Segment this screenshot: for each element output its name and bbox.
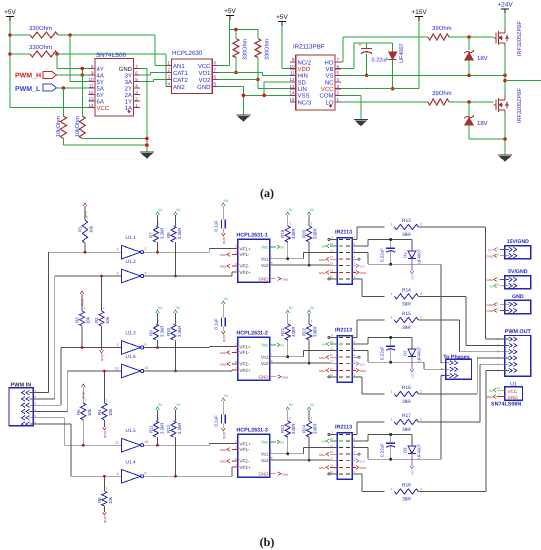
node +5V1/R330-1	[8, 33, 12, 37]
svg-text:VSS: VSS	[298, 93, 310, 100]
svg-text:5V: 5V	[281, 344, 285, 348]
resistor R10 3.3kR	[171, 324, 176, 340]
svg-text:2: 2	[145, 247, 147, 251]
svg-text:D2: D2	[403, 350, 408, 356]
resistor R2 10k	[99, 311, 104, 326]
resistor R6 10k pulldown	[103, 476, 105, 491]
svg-text:10kOhm: 10kOhm	[56, 116, 62, 137]
svg-text:HCPL2630: HCPL2630	[172, 50, 203, 57]
pin 3 PWM OUT	[509, 350, 513, 354]
node R9 junction	[156, 346, 159, 349]
flag GND COM	[352, 466, 356, 468]
node VS/phase	[503, 74, 507, 78]
flag 5V Vcc	[277, 343, 280, 347]
pin 6 PWM OUT	[509, 368, 513, 372]
svg-text:1: 1	[158, 417, 160, 421]
flag GND SD	[330, 356, 337, 358]
node gnd net 2	[145, 143, 149, 147]
svg-text:14: 14	[289, 91, 295, 96]
flag 15V diode	[410, 271, 414, 274]
flag GND VSS	[330, 369, 337, 371]
resistor R24 330R	[307, 421, 312, 437]
flag 5V Vcc	[277, 440, 280, 444]
pin 6 3Y	[134, 74, 140, 76]
pin 6 VO2	[212, 79, 218, 81]
resistor 39Ohm (high gate)	[428, 34, 449, 40]
svg-text:39R: 39R	[402, 427, 411, 433]
wire VSS to gnd net	[243, 94, 289, 96]
svg-text:U1.3: U1.3	[126, 331, 136, 337]
wire HO to R15	[352, 337, 357, 339]
node R10 junction	[174, 370, 177, 373]
svg-text:GND: GND	[487, 278, 495, 282]
svg-text:(b): (b)	[260, 535, 275, 549]
node R8 junction	[174, 275, 177, 278]
svg-text:GND: GND	[220, 265, 228, 269]
flag 5V R9	[156, 310, 160, 313]
pin 2 PWM OUT	[509, 343, 513, 347]
wire Vo2 to LIN	[276, 264, 330, 266]
node VO1/R330-3	[234, 71, 238, 75]
svg-text:15V: 15V	[488, 248, 493, 252]
svg-text:5V: 5V	[489, 389, 493, 393]
resistor R14 39R	[394, 294, 418, 299]
svg-text:9: 9	[117, 472, 119, 476]
svg-text:Vcc: Vcc	[261, 245, 269, 250]
svg-text:2: 2	[420, 223, 422, 227]
svg-text:VF2-: VF2-	[239, 362, 249, 367]
svg-text:3.3kR: 3.3kR	[160, 228, 165, 239]
flag GND COM	[352, 271, 356, 273]
pin 6 PWM IN	[26, 422, 30, 426]
wire R14 to bus	[419, 295, 467, 297]
flag 5V R22	[307, 310, 311, 313]
ground G2	[236, 114, 250, 116]
wire PWM IN pin 6 to inverter	[37, 423, 71, 425]
svg-text:LIN: LIN	[298, 86, 307, 93]
flag 15V VCC	[352, 363, 356, 365]
svg-text:1: 1	[289, 222, 291, 226]
svg-text:2: 2	[420, 292, 422, 296]
pin 4 2Y	[134, 87, 140, 89]
pin 15 NC/3	[290, 101, 296, 103]
svg-text:NC: NC	[325, 79, 334, 86]
svg-text:1: 1	[106, 487, 108, 491]
node R6/U1.4 input	[103, 475, 106, 478]
svg-text:Vo1: Vo1	[261, 452, 269, 457]
pin 4 AN2	[166, 86, 172, 88]
resistor 330Ohm (VO2 pull-up)	[257, 30, 259, 39]
flag GND 15V/GND	[494, 254, 497, 258]
svg-text:GND: GND	[487, 303, 495, 307]
svg-text:R10: R10	[166, 327, 171, 336]
pin 10 VDD	[290, 68, 296, 70]
node R20/Vo2	[308, 264, 311, 267]
svg-text:AN1: AN1	[173, 63, 185, 70]
svg-text:U1.5: U1.5	[126, 428, 136, 434]
svg-text:VO2: VO2	[198, 77, 211, 84]
svg-text:+5V: +5V	[4, 9, 16, 16]
svg-text:HCPL2631-1: HCPL2631-1	[236, 233, 267, 239]
svg-text:1: 1	[311, 417, 313, 421]
flag GND COM	[352, 369, 356, 371]
pin 8 4Y	[88, 68, 95, 70]
resistor R12 3.3kR	[171, 421, 176, 437]
wire U1.3 out to VF1+	[144, 347, 209, 349]
flag GND 5V/GND	[494, 278, 497, 282]
node R7 junction	[156, 251, 159, 254]
pin 3 To Phases	[450, 373, 454, 377]
svg-text:VF2+: VF2+	[239, 465, 250, 470]
svg-text:5V: 5V	[322, 343, 326, 347]
svg-text:12: 12	[145, 366, 149, 370]
svg-text:5V: 5V	[322, 440, 326, 444]
svg-text:R9: R9	[149, 330, 154, 336]
svg-text:1: 1	[391, 418, 393, 422]
pin 1 1A	[134, 107, 140, 109]
svg-text:15: 15	[330, 275, 334, 279]
zener diode 18V (low)	[468, 102, 470, 116]
svg-text:2Y: 2Y	[125, 85, 132, 92]
svg-text:GND: GND	[220, 448, 228, 452]
pin 5 3A	[134, 81, 140, 83]
svg-text:5V: 5V	[281, 246, 285, 250]
flag 5V R24	[307, 407, 311, 410]
svg-text:VF2-: VF2-	[239, 459, 249, 464]
svg-text:IR2113: IR2113	[335, 230, 352, 236]
pin NC right	[352, 453, 358, 455]
svg-text:UF4007: UF4007	[417, 248, 422, 264]
svg-text:GND: GND	[319, 356, 327, 360]
zener diode 18V (high)	[468, 37, 470, 50]
svg-text:6: 6	[145, 343, 147, 347]
pin VF1-	[232, 448, 238, 450]
wire R18 to bus	[419, 491, 487, 493]
node VO2/R330-4	[256, 78, 260, 82]
node R3/U1.3 input	[81, 346, 84, 349]
pin 9 NC/2	[290, 61, 296, 63]
svg-text:5V/GND: 5V/GND	[508, 269, 528, 275]
pin NC left bottom	[330, 473, 337, 475]
pin 4 PWM IN	[26, 409, 30, 413]
wire PWM_H to 4A	[57, 74, 89, 76]
svg-text:R14: R14	[402, 287, 411, 293]
svg-text:IRF3205ZPBF: IRF3205ZPBF	[517, 20, 523, 56]
node R12 junction	[174, 475, 177, 478]
resistor 10kOhm (PWM_H pulldown)	[81, 75, 83, 116]
wire 3Y to CAT1	[140, 74, 151, 76]
svg-text:VS: VS	[325, 73, 333, 80]
pin VF2+	[232, 271, 238, 273]
pin 10 5Y	[88, 81, 95, 83]
node phase out	[503, 79, 507, 83]
resistor 330Ohm (second pull-up)	[10, 53, 30, 55]
capacitor 0.22uF ch2	[389, 336, 392, 339]
flag 5V R19	[286, 212, 290, 215]
resistor R9 3.3kR	[153, 324, 158, 340]
resistor R5 10k pulldown	[82, 384, 86, 387]
pin 12 SD	[290, 81, 296, 83]
wire HIN stub	[330, 350, 337, 352]
pin 6 VB	[335, 68, 341, 70]
svg-text:1: 1	[311, 320, 313, 324]
svg-text:3.3kR: 3.3kR	[177, 228, 182, 239]
resistor R11 3.3kR	[153, 421, 158, 437]
svg-text:GND: GND	[220, 253, 228, 257]
wire LO to R16	[352, 376, 362, 378]
capacitor 0.22uF ch1	[389, 238, 392, 241]
svg-text:R20: R20	[302, 229, 307, 238]
wire VB to bootstrap	[352, 343, 368, 345]
svg-text:GND: GND	[360, 466, 368, 470]
wire PWM IN pin 4 to inverter	[37, 411, 67, 413]
node R19/Vo1	[286, 257, 289, 260]
node gnd net 1	[145, 137, 149, 141]
svg-text:GND: GND	[220, 363, 228, 367]
pin 1 PWM OUT	[509, 337, 513, 341]
svg-text:6Y: 6Y	[97, 92, 104, 99]
node R4/U1.6 input	[103, 370, 106, 373]
svg-text:R15: R15	[402, 311, 411, 317]
svg-text:GND: GND	[222, 335, 226, 343]
flag 5V Vcc	[277, 245, 280, 249]
wire R17 to bus	[419, 421, 481, 423]
svg-text:R8: R8	[166, 232, 171, 238]
diode D1 UF4007	[411, 240, 413, 251]
pin 7 GND	[134, 68, 140, 70]
svg-text:VO1: VO1	[198, 70, 211, 77]
pin Vcc	[270, 441, 276, 443]
wire VS phase line	[341, 74, 505, 76]
svg-text:2: 2	[85, 399, 87, 403]
resistor R8 3.3kR	[171, 226, 176, 242]
pin 5 PWM IN	[26, 416, 30, 420]
capacitor 0.1uF ch1	[222, 203, 226, 206]
node 4Y tie	[81, 67, 85, 71]
svg-text:14: 14	[330, 268, 334, 272]
svg-text:2: 2	[420, 418, 422, 422]
svg-text:330R: 330R	[291, 229, 296, 240]
pin VF1+	[232, 346, 238, 348]
svg-text:10: 10	[330, 242, 334, 246]
wire R15 to bus	[419, 319, 460, 321]
svg-text:R16: R16	[402, 385, 411, 391]
flag GND out	[278, 375, 281, 379]
flag GND U1 GND	[497, 396, 505, 398]
flag GND GND	[494, 309, 497, 313]
node 4A tie	[81, 73, 85, 77]
resistor R16 39R	[394, 391, 418, 396]
svg-text:IR2113: IR2113	[335, 328, 352, 334]
resistor R7 3.3kR	[153, 226, 158, 242]
node R21/Vo1	[286, 355, 289, 358]
svg-text:1: 1	[311, 222, 313, 226]
svg-text:0.1uF: 0.1uF	[214, 415, 219, 427]
resistor R22 330R	[307, 324, 312, 340]
wire Vo1 to HIN	[276, 453, 304, 455]
pin NC left top	[330, 337, 337, 339]
svg-text:330R: 330R	[291, 424, 296, 435]
wire U1.4 out to VF2+	[144, 475, 232, 477]
svg-text:VF1-: VF1-	[239, 447, 249, 452]
capacitor 0.22uF ch3	[389, 433, 392, 436]
svg-text:14: 14	[330, 463, 334, 467]
svg-text:D3: D3	[403, 447, 408, 453]
flag GND out	[278, 277, 281, 281]
wire U1.5 out to VF1+	[144, 444, 209, 446]
svg-text:VCC: VCC	[508, 389, 518, 394]
svg-text:Vcc: Vcc	[261, 343, 269, 348]
wire pull-up1 to AN1	[70, 34, 155, 36]
pin VF1+	[232, 443, 238, 445]
svg-text:10k: 10k	[108, 408, 113, 416]
svg-text:GND: GND	[119, 66, 133, 73]
svg-text:GND: GND	[222, 432, 226, 440]
svg-text:GND: GND	[319, 466, 327, 470]
wire phase output	[505, 80, 541, 82]
flag 5V R7	[156, 212, 160, 215]
resistor 39Ohm (low gate)	[428, 99, 449, 105]
wire VO1 to HIN	[218, 72, 263, 74]
svg-text:10: 10	[330, 437, 334, 441]
wire 3A to CAT2	[140, 81, 154, 83]
resistor R15 39R	[394, 317, 418, 322]
svg-text:3A: 3A	[125, 79, 132, 86]
svg-text:2: 2	[420, 390, 422, 394]
flag 15V VCC	[352, 460, 356, 462]
svg-text:10k: 10k	[89, 225, 94, 233]
svg-text:GND: GND	[100, 354, 104, 362]
svg-text:+5V: +5V	[276, 14, 288, 21]
wire Vo2 to LIN	[276, 362, 330, 364]
wire pull-up1 branch to 5Y	[69, 35, 71, 82]
svg-text:1: 1	[117, 248, 119, 252]
flag 5V VDD	[330, 245, 337, 247]
flag 5V R10	[174, 310, 178, 313]
flag 15V diode	[410, 466, 414, 469]
pin 12 6Y	[88, 94, 95, 96]
svg-text:R5: R5	[76, 409, 81, 415]
wire Vo1 to HIN	[276, 258, 304, 260]
pin Vo2	[270, 362, 276, 364]
pin NC left bottom	[330, 278, 337, 280]
svg-text:VF2+: VF2+	[239, 270, 250, 275]
svg-text:5V: 5V	[490, 284, 494, 288]
pin Vo2	[270, 459, 276, 461]
node zener1 top	[467, 35, 471, 39]
svg-text:4A: 4A	[97, 72, 104, 79]
node rail/R330-3	[234, 28, 238, 32]
wire VB to bootstrap rail	[341, 68, 354, 70]
svg-text:VF1-: VF1-	[239, 350, 249, 355]
svg-text:2: 2	[84, 307, 86, 311]
wire PWM IN pin 3 to inverter	[37, 404, 61, 406]
wire PWM IN pin 5 to inverter	[37, 417, 65, 419]
resistor R18 39R	[394, 489, 418, 494]
svg-text:5V: 5V	[322, 245, 326, 249]
svg-text:15V: 15V	[410, 373, 414, 378]
svg-text:VF1-: VF1-	[239, 252, 249, 257]
svg-text:18V: 18V	[477, 55, 488, 62]
capacitor 0.1uF ch2	[222, 301, 226, 304]
svg-text:12: 12	[330, 353, 334, 357]
pin 1 PWM IN	[26, 390, 30, 394]
wire HO to R13	[352, 239, 357, 241]
node PWM_L/R10k	[62, 86, 66, 90]
svg-text:39Ohm: 39Ohm	[432, 90, 452, 97]
svg-text:5: 5	[117, 343, 119, 347]
svg-text:10k: 10k	[86, 316, 91, 324]
svg-text:5V: 5V	[281, 441, 285, 445]
svg-text:15V: 15V	[360, 362, 365, 366]
svg-text:15: 15	[289, 97, 295, 102]
svg-text:15: 15	[330, 470, 334, 474]
pin VF2+	[232, 466, 238, 468]
wire LO to low gate resistor	[341, 101, 428, 103]
svg-text:U1.4: U1.4	[126, 459, 136, 465]
diode D2 UF4007	[411, 338, 413, 349]
svg-text:15V/GND: 15V/GND	[507, 239, 529, 245]
svg-text:VF1+: VF1+	[239, 246, 250, 251]
svg-text:13: 13	[88, 97, 94, 102]
svg-text:R18: R18	[402, 483, 411, 489]
pin 13 6A	[88, 100, 95, 102]
wire COM to ground	[341, 94, 361, 96]
resistor R13 39R	[394, 224, 418, 229]
svg-text:330Ohm: 330Ohm	[265, 38, 271, 60]
svg-text:12: 12	[88, 90, 94, 95]
wire VS rail	[352, 252, 368, 254]
pin 8 VCC	[212, 65, 218, 67]
wire +5V1 vertical to VCC	[9, 21, 11, 108]
svg-text:39R: 39R	[402, 232, 411, 238]
svg-text:0.22uF: 0.22uF	[380, 346, 385, 360]
wire HCPL GND down	[218, 86, 243, 88]
svg-text:13: 13	[330, 262, 334, 266]
node VSS junction	[242, 94, 246, 98]
wire +5V2 rail	[230, 29, 258, 31]
wire R13 to bus	[419, 226, 486, 228]
wire PWM IN pin 2 to inverter	[37, 398, 55, 400]
svg-text:0.22uF: 0.22uF	[380, 443, 385, 457]
svg-text:UF4007: UF4007	[417, 443, 422, 459]
svg-text:2: 2	[420, 487, 422, 491]
svg-text:SD: SD	[298, 79, 307, 86]
node pull-up2 branch	[55, 52, 59, 56]
flag 5V VDD	[330, 343, 337, 345]
pin NC left bottom	[330, 376, 337, 378]
svg-text:1: 1	[175, 417, 177, 421]
wire +5V2 to HCPL VCC	[229, 20, 231, 66]
flag 5V VDD	[330, 440, 337, 442]
resistor R23 330R	[285, 421, 290, 437]
svg-text:1: 1	[175, 320, 177, 324]
pin GND	[270, 473, 276, 475]
svg-text:6A: 6A	[97, 98, 104, 105]
pin VF1-	[232, 351, 238, 353]
pin VF2-	[232, 265, 238, 267]
svg-text:UF4007: UF4007	[399, 43, 405, 63]
svg-text:1Y: 1Y	[125, 98, 132, 105]
pin 3 2A	[134, 94, 140, 96]
svg-text:15: 15	[330, 373, 334, 377]
flag GND VF2-	[227, 264, 230, 268]
svg-text:18V: 18V	[477, 120, 488, 127]
svg-text:Vo2: Vo2	[261, 263, 269, 268]
node zener2 top	[467, 100, 471, 104]
svg-text:GND: GND	[319, 271, 327, 275]
svg-text:8: 8	[145, 471, 147, 475]
